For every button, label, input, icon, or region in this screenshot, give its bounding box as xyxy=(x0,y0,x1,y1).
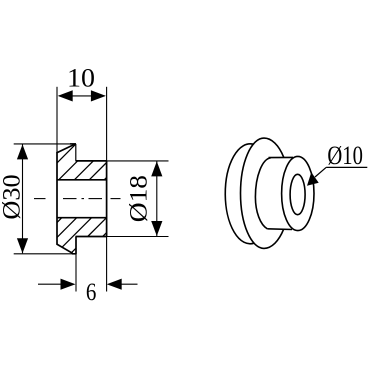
outline: flange bottom flat xyxy=(72,253,77,255)
arrow dim18 bottom xyxy=(151,221,162,236)
outline: flange top flat xyxy=(70,143,76,145)
hatch top band xyxy=(57,145,107,180)
dim 6 extension line right xyxy=(106,237,108,292)
outline: top chamfer xyxy=(57,144,76,153)
svg-text:Ø10: Ø10 xyxy=(327,141,363,170)
leader line horizontal xyxy=(326,166,367,168)
outline: right face xyxy=(106,161,108,237)
dim 30 dimension line xyxy=(22,144,24,253)
dim 18 extension line bottom xyxy=(107,236,169,238)
outline: bottom chamfer xyxy=(57,244,73,253)
arrow dim30 top xyxy=(17,144,28,159)
flange back rim arc xyxy=(225,144,254,244)
svg-text:Ø18: Ø18 xyxy=(126,175,153,222)
arrow dim18 top xyxy=(151,161,162,176)
dim 30 extension line bottom xyxy=(14,253,77,255)
hole ellipse xyxy=(290,174,305,214)
hatch bottom band xyxy=(57,218,107,253)
outline: flange right face top notch xyxy=(75,144,77,161)
shank bottom edge xyxy=(267,228,292,231)
arrow dim6 left (points right) xyxy=(61,279,76,290)
dim 30 extension line top xyxy=(14,143,76,145)
dim 10 extension line right / right face extension xyxy=(106,87,108,161)
centerline xyxy=(34,198,121,200)
outline: hole top xyxy=(57,179,107,181)
arrowheads left view xyxy=(17,90,163,289)
dim 18 dimension line xyxy=(156,161,158,236)
svg-text:Ø30: Ø30 xyxy=(0,174,25,219)
outline: left face xyxy=(56,152,58,245)
svg-text:6: 6 xyxy=(86,279,97,306)
leader line diagonal xyxy=(315,167,326,177)
outline: shank top edge xyxy=(76,160,107,162)
arrow dim10 left xyxy=(58,90,73,101)
shank-flange junction arc xyxy=(255,158,271,229)
outline: flange right face bottom xyxy=(75,237,77,254)
shank front ellipse xyxy=(282,156,314,230)
shank top edge xyxy=(269,156,294,158)
arrow dim30 bottom xyxy=(17,238,28,253)
arrow dim6 right (points left) xyxy=(107,279,122,290)
outline: shank bottom edge xyxy=(76,236,107,238)
dim 6 extension line left xyxy=(75,254,77,292)
outline: hole bottom xyxy=(57,217,107,219)
dim 10 extension line left xyxy=(56,87,58,153)
svg-text:10: 10 xyxy=(67,64,95,93)
flange front ellipse xyxy=(240,138,283,248)
arrow dim10 right xyxy=(91,90,106,101)
dim 6 dimension line right tail xyxy=(121,283,138,285)
dim 18 extension line top xyxy=(107,160,169,162)
dim 10 dimension line xyxy=(59,95,105,97)
leader arrowhead xyxy=(307,172,319,185)
dim 6 dimension line left tail xyxy=(38,283,62,285)
